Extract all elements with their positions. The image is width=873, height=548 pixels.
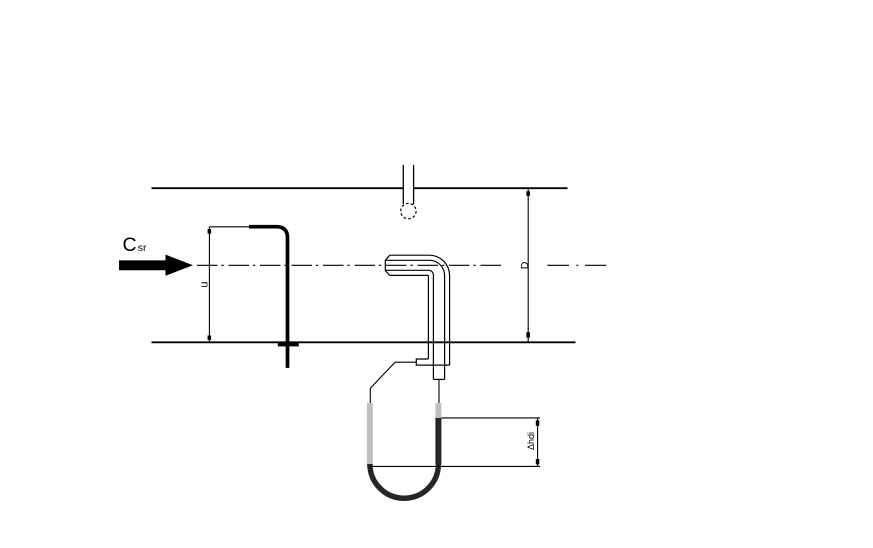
wire top pipe wall left segment xyxy=(152,187,404,189)
node manometer liquid U bend xyxy=(370,464,439,498)
node pitot holder bracket xyxy=(416,359,449,365)
wire dh dimension top extension xyxy=(441,417,540,419)
node manometer left glass tube gray xyxy=(367,403,373,467)
probe thick L-shaped sensor tube xyxy=(249,227,288,368)
node sensor mounting flange xyxy=(278,343,299,347)
node manometer right glass tube gray xyxy=(435,403,441,418)
node Csr label xyxy=(123,234,148,256)
probe pitot tube inner top line xyxy=(386,260,445,379)
wire left connection diagonal xyxy=(370,362,395,388)
wire left connection vertical xyxy=(369,388,371,403)
wire left connection horizontal xyxy=(395,361,416,363)
node u dimension arrow bottom xyxy=(208,335,212,340)
svg-text:D: D xyxy=(519,261,531,269)
svg-text:C: C xyxy=(123,234,137,256)
node flow arrow xyxy=(119,255,193,276)
node top tapping dashed circle xyxy=(401,203,416,218)
wire pipe centerline dash-dot right part xyxy=(547,264,606,266)
probe pitot tube outer bottom outline xyxy=(390,275,429,359)
probe pitot tube outer top outline xyxy=(390,255,450,365)
wire right connection line to manometer xyxy=(438,379,440,403)
node u dimension arrow top xyxy=(208,229,212,234)
wire bottom pipe wall xyxy=(152,341,576,343)
wire dh dimension bottom extension xyxy=(370,465,540,467)
probe top tapping tube left line xyxy=(402,165,404,204)
node dh arrow top xyxy=(536,420,540,425)
node D dimension arrow top xyxy=(526,191,530,196)
node manometer liquid right column xyxy=(435,418,441,464)
probe pitot tube inner bottom line xyxy=(386,270,434,379)
node D dimension arrow bottom xyxy=(526,332,530,337)
wire top pipe wall right segment xyxy=(414,187,568,189)
wire pipe centerline dash-dot left part xyxy=(197,264,501,266)
node pitot nose front face xyxy=(385,255,389,275)
svg-text:u: u xyxy=(198,282,210,288)
probe top tapping tube right line xyxy=(413,165,415,204)
wire u dimension extension line xyxy=(209,226,249,228)
wire u dimension line xyxy=(208,227,210,342)
svg-text:sr: sr xyxy=(138,242,147,254)
node dh arrow bottom xyxy=(536,459,540,464)
svg-text:Δhdi: Δhdi xyxy=(526,432,536,450)
node pitot inner tube closed end xyxy=(433,378,444,380)
wire dh dimension line xyxy=(537,418,539,467)
wire D dimension line xyxy=(527,188,529,342)
